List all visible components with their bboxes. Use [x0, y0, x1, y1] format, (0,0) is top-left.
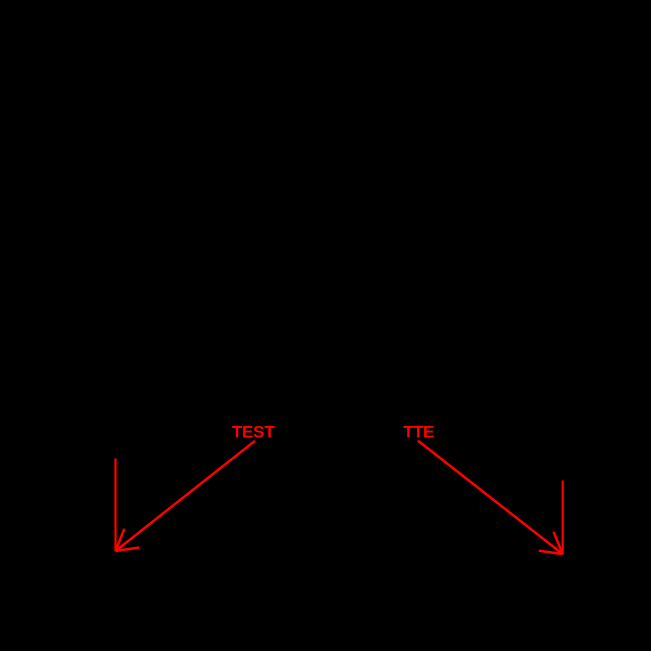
arrow TEST head barb lower: [116, 548, 140, 552]
vertical marker line left: [114, 458, 116, 551]
arrow TTE head barb upper: [554, 532, 563, 554]
arrow TEST shaft: [116, 441, 256, 551]
arrow TEST head barb upper: [116, 529, 125, 551]
arrow TTE head barb lower: [539, 551, 563, 554]
vertical marker line right: [562, 481, 564, 555]
svg-text:TEST: TEST: [232, 423, 275, 442]
svg-text:TTE: TTE: [403, 423, 434, 442]
arrow TTE shaft: [418, 441, 563, 554]
